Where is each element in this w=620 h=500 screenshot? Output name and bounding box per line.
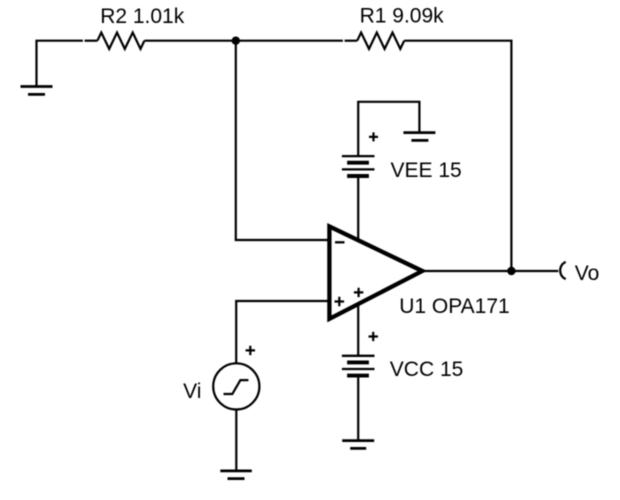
svg-text:VCC 15: VCC 15 bbox=[390, 358, 464, 381]
svg-text:Vo: Vo bbox=[575, 262, 600, 285]
svg-text:U1 OPA171: U1 OPA171 bbox=[399, 295, 510, 318]
svg-text:Vi: Vi bbox=[183, 380, 201, 403]
svg-text:VEE 15: VEE 15 bbox=[391, 159, 462, 182]
svg-text:R1 9.09k: R1 9.09k bbox=[360, 5, 445, 28]
svg-text:R2 1.01k: R2 1.01k bbox=[100, 5, 185, 28]
